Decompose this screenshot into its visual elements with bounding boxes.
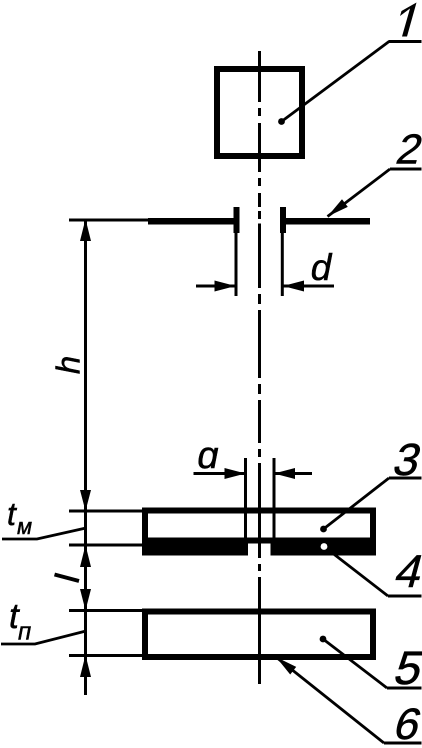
wire: d extension line right [281, 230, 284, 296]
arrow: d left [215, 281, 236, 292]
leader to 3 [324, 478, 390, 529]
svg-text:ɑ: ɑ [197, 435, 218, 477]
diaphragm 2: left inner edge bar [234, 207, 240, 233]
leader t_m [2, 528, 86, 539]
svg-text:h: h [50, 356, 87, 374]
node: leader 3 dot [320, 526, 327, 533]
arrow: l top [80, 545, 91, 567]
dimension a: line right [274, 472, 312, 475]
wire: extension line top of membrane [69, 510, 142, 513]
coating 4: left part [142, 540, 248, 556]
leader t_p [1, 631, 86, 644]
leader to 1 [282, 42, 390, 122]
dimension d: line left [196, 285, 236, 288]
wire: extension line bottom of membrane [69, 544, 142, 547]
substrate 5: rectangle [145, 612, 373, 658]
svg-text:t: t [7, 496, 17, 532]
wire: a extension line left [244, 458, 247, 538]
arrow: a left [225, 468, 246, 479]
label l (drawn as stroke) [55, 575, 80, 582]
centerline (axis 6), dash-dot segments [258, 51, 261, 684]
membrane 3: rectangle [145, 511, 373, 541]
arrow: bottom outside up arrow [80, 655, 91, 677]
arrow: a right [274, 468, 295, 479]
wire: extension line bottom of substrate [69, 654, 142, 657]
leader to 5 [323, 639, 387, 688]
leader to 2 [328, 169, 391, 217]
arrow: leader 2 [328, 199, 348, 216]
arrow: l bottom [80, 589, 91, 611]
wire: a extension line right [273, 458, 276, 538]
wire: extension line top of substrate [69, 609, 142, 612]
svg-text:м: м [17, 514, 32, 539]
svg-text:d: d [311, 247, 333, 288]
wire: h/l vertical dimension line [84, 220, 87, 695]
diaphragm 2: left segment [148, 218, 234, 225]
node: leader 1 dot [278, 118, 285, 125]
coating 4: right part [271, 540, 377, 556]
wire: extension line at diaphragm level [69, 219, 148, 222]
node: leader 5 dot [320, 636, 327, 643]
electrode 1: square [217, 69, 302, 156]
dimension d: line right [283, 285, 334, 288]
label 1 [400, 3, 417, 37]
arrow: h top [80, 219, 91, 241]
diaphragm 2: right inner edge bar [280, 207, 286, 233]
svg-text:п: п [18, 619, 31, 646]
wire: d extension line left [235, 230, 238, 296]
diaphragm 2: right segment [286, 218, 370, 225]
arrow: d right [283, 281, 304, 292]
dimension a: line left [194, 472, 246, 475]
leader to 6 [276, 657, 384, 743]
arrow: leader 6 [276, 657, 296, 675]
node: leader 4 white dot [321, 543, 328, 550]
leader to 4 [324, 547, 388, 597]
arrow: h bottom [80, 490, 91, 511]
